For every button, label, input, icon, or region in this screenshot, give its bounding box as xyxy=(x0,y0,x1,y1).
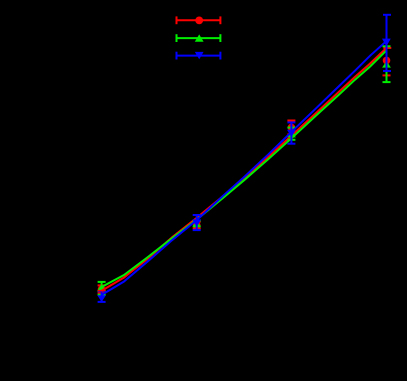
errorbar red point 1 top cap xyxy=(98,284,106,286)
errorbar blue point 3 bottom cap xyxy=(287,143,295,145)
legend entry 2 (green) errorbar line xyxy=(177,37,221,39)
series 1 fit line (red) xyxy=(102,48,387,291)
legend entry 3 right cap xyxy=(219,52,221,60)
errorbar red point 3 bottom cap xyxy=(287,133,295,135)
errorbar blue point 4 stem xyxy=(386,15,388,71)
marker green triangle-up point 3 xyxy=(287,130,296,138)
errorbar red point 2 stem xyxy=(196,222,198,229)
errorbar red point 1 bottom cap xyxy=(98,292,106,294)
marker green triangle-up point 1 xyxy=(97,284,106,292)
errorbar green point 2 top cap xyxy=(193,220,201,222)
legend entry 3 (blue) errorbar line xyxy=(177,55,221,57)
red mid band (circle widest row over triangle base) xyxy=(98,290,106,292)
marker red circle point 1 xyxy=(98,286,106,294)
series 3 fit line (blue) xyxy=(102,41,387,295)
marker blue triangle-down point 4 xyxy=(382,39,391,47)
marker green triangle-up point 2 xyxy=(193,221,201,227)
errorbar blue point 2 stem xyxy=(196,215,198,230)
errorbar green point 2 bottom cap xyxy=(193,225,201,227)
errorbar blue point 4 top cap xyxy=(383,14,391,16)
red tint over blue cap (raster blend imitation) xyxy=(98,291,106,293)
errorbar blue point 4 bottom cap xyxy=(383,70,391,72)
legend entry 1 right cap xyxy=(219,16,221,24)
legend entry 1 circle marker xyxy=(195,17,203,25)
cluster 1 (x~101.6) layered group xyxy=(97,282,106,302)
errorbar blue point 2 bottom cap xyxy=(193,229,201,231)
errorbar green point 3 bottom cap xyxy=(287,139,295,141)
errorbar blue point 1 stem xyxy=(101,292,103,302)
marker red circle point 3 xyxy=(288,124,296,132)
errorbar red point 2 bottom cap xyxy=(193,227,201,229)
marker red circle point 2 xyxy=(193,221,201,229)
marker green triangle-up point 4 xyxy=(382,61,391,68)
marker blue triangle-down point 3 xyxy=(287,130,296,138)
legend entry 2 triangle-up marker xyxy=(195,34,204,41)
errorbar red point 3 top cap xyxy=(287,120,295,122)
series 2 fit line (green) xyxy=(102,50,387,287)
legend entry 3 triangle-down marker xyxy=(195,52,204,59)
errorbar blue point 1 top cap xyxy=(98,291,106,293)
errorbar green point 4 stem xyxy=(386,46,388,82)
marker red circle point 4 xyxy=(383,57,391,65)
legend entry 3 left cap xyxy=(176,52,178,60)
marker blue triangle-down point 2 xyxy=(192,219,201,227)
errorbar green point 3 stem xyxy=(290,128,292,140)
errorbar green point 4 bottom cap xyxy=(383,81,391,83)
errorbar red point 1 stem xyxy=(101,285,103,293)
errorbar green point 1 stem xyxy=(101,282,103,295)
errorbar red point 3 stem xyxy=(290,121,292,135)
legend entry 1 (red) errorbar line xyxy=(177,19,221,21)
errorbar green point 2 stem xyxy=(196,221,198,227)
legend entry 2 left cap xyxy=(176,34,178,42)
errorbar green point 3 top cap xyxy=(287,127,295,129)
errorbar blue point 3 stem xyxy=(290,122,292,143)
legend entry 2 right cap xyxy=(219,34,221,42)
errorbar blue point 1 bottom cap xyxy=(98,301,106,303)
errorbar green point 1 bottom cap xyxy=(98,294,106,296)
errorbar green point 4 top cap xyxy=(383,45,391,47)
errorbar green point 1 top cap xyxy=(98,281,106,283)
errorbar red point 4 bottom cap xyxy=(383,74,391,76)
legend entry 1 left cap xyxy=(176,16,178,24)
errorbar blue point 2 top cap xyxy=(193,214,201,216)
marker blue triangle-down point 1 xyxy=(97,295,106,302)
errorbar red point 2 top cap xyxy=(193,221,201,223)
errorbar red point 4 top cap xyxy=(383,47,391,49)
errorbar red point 4 stem xyxy=(386,48,388,76)
errorbar blue point 3 top cap xyxy=(287,121,295,123)
